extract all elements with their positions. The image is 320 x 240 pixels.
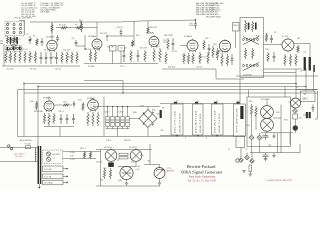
AC line top wire bbox=[0, 147, 38, 149]
left supply riser bbox=[100, 150, 102, 187]
coupling capacitor C13 bbox=[116, 27, 123, 36]
svg-text:C10: C10 bbox=[8, 57, 11, 59]
heater tie points bbox=[70, 152, 76, 161]
attenuator resistor Rd bbox=[252, 48, 254, 59]
svg-text:C20 10: C20 10 bbox=[196, 66, 202, 68]
svg-text:C12: C12 bbox=[97, 49, 100, 51]
riser left af bbox=[17, 90, 19, 137]
wire V7 plate link bbox=[294, 44, 310, 58]
attenuator core b bbox=[255, 23, 257, 30]
scattered value labels row1 bbox=[5, 21, 306, 73]
wire V8 top bbox=[48, 97, 50, 100]
svg-text:V7: V7 bbox=[274, 32, 277, 34]
winding note block bbox=[196, 2, 223, 16]
tube V4 AVC bbox=[149, 35, 159, 48]
parts list legend column 2 bbox=[40, 3, 64, 14]
svg-text:RH 4.7: RH 4.7 bbox=[80, 148, 86, 150]
resistor R26 bbox=[221, 53, 223, 66]
svg-text:CT: CT bbox=[53, 158, 56, 160]
bypass capacitor C51 bbox=[263, 153, 269, 161]
label meter red bbox=[167, 168, 175, 173]
grid resistor R15 bbox=[131, 40, 133, 47]
svg-text:R41 100K: R41 100K bbox=[34, 111, 44, 113]
svg-text:R44: R44 bbox=[78, 100, 81, 102]
row1 right parts bbox=[265, 49, 297, 66]
bus right step bbox=[264, 68, 303, 70]
meter circuit box bbox=[247, 97, 291, 147]
svg-text:R16: R16 bbox=[156, 46, 159, 48]
svg-text:C19 25: C19 25 bbox=[171, 51, 177, 53]
label cluster under V3 bbox=[84, 49, 99, 51]
wire switch to bus bbox=[23, 20, 25, 35]
bias winding bbox=[43, 180, 69, 185]
IF can T3 bbox=[193, 104, 204, 137]
wire rect to meter bbox=[144, 144, 160, 168]
resistor R14 bbox=[144, 50, 146, 62]
labels cap bank bbox=[104, 112, 125, 114]
svg-text:T2: T2 bbox=[176, 101, 178, 103]
svg-text:MOD AMP 6AQ5: MOD AMP 6AQ5 bbox=[206, 16, 222, 19]
resistor R57 bbox=[255, 106, 257, 130]
svg-text:R21 820: R21 820 bbox=[168, 66, 175, 68]
svg-text:C51: C51 bbox=[268, 145, 271, 147]
svg-text:455KC 2ND IF L 2.4mH: 455KC 2ND IF L 2.4mH bbox=[196, 110, 198, 133]
AC line bottom wire bbox=[0, 161, 38, 163]
wire V2 plate to bus bbox=[51, 22, 53, 39]
svg-text:C4b 940pF . .: C4b 940pF . . bbox=[40, 12, 53, 14]
svg-text:VT: VT bbox=[304, 94, 308, 96]
capacitor C42 bbox=[312, 105, 315, 113]
svg-text:R55 2K: R55 2K bbox=[124, 140, 131, 142]
output ground 1 bbox=[242, 171, 246, 173]
wire meter amp link bbox=[273, 117, 281, 119]
svg-text:C45: C45 bbox=[160, 130, 163, 132]
labels rectifier area bbox=[103, 162, 134, 182]
resistor R2 bbox=[36, 38, 38, 46]
component box K1 bbox=[110, 46, 117, 52]
svg-text:V13 6X4: V13 6X4 bbox=[129, 147, 138, 149]
riser x281 bbox=[278, 105, 282, 153]
crystal calibrator box bbox=[233, 23, 240, 32]
regulator ground bbox=[125, 180, 129, 185]
capacitor C25 bbox=[270, 35, 273, 43]
capacitor C19 bbox=[172, 38, 175, 50]
tube V5 modulator bbox=[187, 39, 198, 53]
wire output bus bbox=[250, 144, 300, 153]
filter resistor pair bbox=[119, 153, 128, 159]
coil L2 dark slugs bbox=[7, 47, 21, 51]
svg-text:606A Signal Generator: 606A Signal Generator bbox=[181, 169, 223, 174]
svg-text:R30: R30 bbox=[256, 36, 259, 38]
svg-text:L20: L20 bbox=[116, 159, 119, 161]
wire right edge stub bbox=[315, 91, 318, 119]
svg-text:C8: C8 bbox=[72, 38, 75, 40]
capacitor C31 bbox=[66, 114, 69, 124]
labels stage3 bbox=[163, 40, 206, 59]
svg-text:R15: R15 bbox=[136, 35, 139, 37]
fuse F1 bbox=[25, 143, 31, 149]
svg-text:R24: R24 bbox=[219, 50, 222, 52]
svg-text:C27: C27 bbox=[300, 70, 303, 72]
tube V9 AF amplifier bbox=[88, 98, 99, 112]
attenuator switch wafer 1 bbox=[243, 37, 259, 45]
bridge rectifier CR1 diamond bbox=[130, 107, 160, 137]
capacitor C17 under bus junction bbox=[189, 19, 197, 29]
svg-text:6AL7: 6AL7 bbox=[303, 97, 309, 100]
bus line B plus 2 bbox=[38, 86, 306, 88]
svg-text:R5 2.2K: R5 2.2K bbox=[59, 25, 67, 27]
svg-text:C13 50: C13 50 bbox=[116, 27, 123, 29]
attenuator switch wafer 2 bbox=[243, 63, 259, 71]
svg-text:6.3V +: 6.3V + bbox=[70, 152, 76, 154]
svg-text:C39 4: C39 4 bbox=[106, 140, 112, 142]
resistor R17 bbox=[159, 48, 161, 62]
capacitor C26 right edge bbox=[313, 65, 315, 72]
regulator series resistor bbox=[109, 168, 111, 179]
svg-text:▲ SELECTED BY FACTORY: ▲ SELECTED BY FACTORY bbox=[266, 179, 293, 182]
svg-text:R56: R56 bbox=[249, 101, 252, 103]
svg-text:.02: .02 bbox=[163, 42, 167, 44]
capacitor C14 bbox=[123, 50, 126, 62]
svg-text:R16 1M: R16 1M bbox=[150, 27, 157, 29]
bus row1 mid ground bbox=[84, 63, 158, 65]
resistor R25a bbox=[199, 52, 201, 64]
svg-text:R40: R40 bbox=[30, 101, 33, 103]
svg-text:1000: 1000 bbox=[189, 25, 194, 27]
svg-text:J1: J1 bbox=[228, 149, 230, 151]
svg-text:Hewlett-Packard: Hewlett-Packard bbox=[187, 164, 217, 169]
svg-text:R8 22K: R8 22K bbox=[85, 49, 92, 51]
IF can T5 with core bbox=[234, 104, 246, 136]
component box K2 bbox=[118, 46, 125, 52]
svg-text:T4: T4 bbox=[216, 101, 218, 103]
wire V9 riser bbox=[103, 97, 105, 137]
svg-text:+ 6.3: + 6.3 bbox=[70, 159, 74, 161]
riser x306 bbox=[305, 68, 307, 92]
svg-text:L10: L10 bbox=[303, 52, 306, 54]
svg-text:R23: R23 bbox=[213, 44, 216, 46]
tube V3 buffer bbox=[92, 38, 102, 51]
svg-text:T: T bbox=[238, 142, 240, 144]
svg-text:OSC B+ 120V REG: OSC B+ 120V REG bbox=[14, 18, 32, 20]
svg-text:455KC 3RD IF L 2.4mH: 455KC 3RD IF L 2.4mH bbox=[215, 110, 217, 133]
svg-text:C10 .005: C10 .005 bbox=[6, 69, 14, 71]
cathode resistor row stage 1 bbox=[5, 51, 37, 63]
power transformer T1 core bbox=[38, 146, 42, 184]
bus af right bbox=[93, 106, 160, 108]
monitor diode CR2 bbox=[239, 158, 244, 163]
svg-text:S1a: S1a bbox=[7, 23, 11, 25]
svg-text:C15 .1: C15 .1 bbox=[120, 66, 126, 68]
junction dots buses bbox=[23, 83, 306, 94]
meter ground bbox=[158, 179, 162, 186]
wire riser x148 with resistor bbox=[147, 21, 149, 34]
thermistor RT1 bbox=[160, 110, 162, 118]
svg-text:T3: T3 bbox=[197, 101, 199, 103]
riser x313 bbox=[313, 71, 315, 92]
svg-text:S2: S2 bbox=[244, 21, 246, 23]
labels bridge bbox=[133, 110, 157, 115]
svg-text:L1: L1 bbox=[19, 39, 21, 41]
can trimmer marks bbox=[174, 102, 240, 104]
grid line stage2 bbox=[106, 35, 134, 41]
tuning coil L1 with core bbox=[6, 36, 20, 44]
svg-text:R51: R51 bbox=[152, 110, 157, 112]
terminal left edge bbox=[0, 41, 3, 44]
svg-text:R2: R2 bbox=[33, 36, 35, 38]
bus row1 right ground bbox=[162, 68, 216, 70]
svg-text:H H: H H bbox=[70, 155, 74, 157]
svg-text:R33: R33 bbox=[265, 49, 268, 51]
attenuator core a bbox=[248, 23, 250, 30]
wire regulator top bbox=[118, 166, 136, 168]
wire af osc bottom bbox=[44, 127, 74, 137]
svg-text:OUTPUT XFMR 600 OHM: OUTPUT XFMR 600 OHM bbox=[237, 108, 239, 133]
labels under bus row1 bbox=[6, 66, 202, 71]
svg-text:Y1: Y1 bbox=[296, 87, 298, 89]
tube V6 mod output bbox=[219, 39, 230, 53]
labels under stage1 bbox=[5, 49, 70, 59]
attenuator resistor Rc bbox=[245, 48, 247, 59]
riser heater left bbox=[37, 87, 39, 147]
svg-text:R20 220K: R20 220K bbox=[164, 35, 174, 37]
resistor R20 bbox=[167, 38, 169, 50]
extra micro labels bbox=[100, 27, 298, 151]
wire V3 plate to bus bbox=[96, 22, 98, 38]
range switch dots bbox=[107, 106, 128, 107]
svg-text:V12 6X4: V12 6X4 bbox=[104, 147, 113, 149]
svg-text:T5: T5 bbox=[237, 101, 239, 103]
bus line B plus 1 bbox=[24, 83, 296, 85]
svg-text:R7: R7 bbox=[75, 25, 77, 27]
svg-text:C4: C4 bbox=[26, 34, 28, 36]
resistor R13 bbox=[130, 50, 132, 62]
svg-text:W6 = 300t #38 SILK 42u: W6 = 300t #38 SILK 42u bbox=[196, 13, 218, 16]
resistor R44 between stages bbox=[82, 102, 84, 111]
svg-text:R58: R58 bbox=[276, 112, 279, 114]
resistor R25b bbox=[207, 52, 209, 64]
svg-text:+150: +150 bbox=[136, 166, 142, 168]
resistor R47 bbox=[97, 112, 99, 126]
svg-text:C34 .5: C34 .5 bbox=[104, 112, 111, 114]
grid bus step bbox=[84, 80, 123, 82]
svg-text:C11 500: C11 500 bbox=[63, 50, 70, 52]
bus line right upper bbox=[236, 75, 318, 77]
capacitor C21 bbox=[208, 44, 211, 54]
heater dropping resistor Rh1 bbox=[83, 151, 85, 159]
svg-text:C9 .01: C9 .01 bbox=[22, 49, 28, 51]
wire K1 lead bbox=[112, 51, 114, 64]
svg-text:R31: R31 bbox=[297, 38, 300, 40]
trimmer box bbox=[293, 114, 302, 119]
resistor R56 bbox=[250, 104, 252, 135]
tube V7 output amp bbox=[282, 38, 294, 53]
potentiometer R24 bbox=[216, 48, 219, 60]
heater winding 6.3V bbox=[43, 166, 69, 172]
heater winding 5V bbox=[43, 174, 69, 179]
svg-text:V4 6BA6: V4 6BA6 bbox=[146, 32, 155, 35]
svg-text:V3 6AH6: V3 6AH6 bbox=[88, 35, 97, 38]
svg-text:METER: METER bbox=[167, 171, 175, 173]
svg-text:55 V BIAS: 55 V BIAS bbox=[44, 182, 53, 185]
svg-text:C30 .1: C30 .1 bbox=[58, 111, 65, 113]
bus row1 left ground bbox=[2, 44, 80, 66]
svg-text:C41: C41 bbox=[299, 117, 302, 119]
crystal Y1 bbox=[293, 108, 298, 113]
svg-text:50 / 60 c: 50 / 60 c bbox=[15, 156, 23, 158]
resistor R30 bbox=[265, 33, 267, 42]
diode CR5 in box bbox=[249, 135, 254, 153]
meter M1 bbox=[154, 168, 165, 179]
resistor R23 bbox=[212, 46, 214, 58]
ground C50 bbox=[272, 133, 276, 139]
tube V8 AF oscillator bbox=[44, 100, 54, 113]
resistor R40 bbox=[35, 101, 37, 110]
svg-text:V5 6AQ5: V5 6AQ5 bbox=[184, 35, 193, 38]
crystal holder dark bbox=[293, 119, 298, 133]
variable capacitor C4 bbox=[28, 36, 31, 44]
svg-text:R14 47K: R14 47K bbox=[140, 48, 148, 50]
svg-text:RT: RT bbox=[162, 108, 165, 110]
resistor R42 bbox=[48, 113, 50, 126]
svg-text:6.3 V 3A: 6.3 V 3A bbox=[44, 168, 52, 171]
svg-text:Q80 ADJ TOP SLUG: Q80 ADJ TOP SLUG bbox=[199, 113, 202, 133]
capacitor bank C34-C38 bbox=[106, 107, 130, 137]
heater dropping resistor Rh2 bbox=[89, 151, 91, 159]
IF can T2 bbox=[171, 104, 183, 137]
supply bottom bus bbox=[96, 185, 160, 187]
tube V14 regulator OA2 bbox=[120, 166, 133, 179]
svg-text:MA: MA bbox=[148, 160, 152, 163]
resistor R9 under V3 bbox=[94, 50, 96, 62]
svg-text:R62: R62 bbox=[131, 162, 134, 164]
resistor R8 under V3 bbox=[89, 50, 91, 62]
svg-text:455KC 1ST IF L 2.4mH: 455KC 1ST IF L 2.4mH bbox=[175, 111, 177, 133]
AVC rail with series resistors bbox=[56, 21, 97, 29]
resistor R45 bbox=[87, 112, 89, 126]
plate resistor R10 bbox=[79, 20, 83, 32]
svg-text:R25 1K: R25 1K bbox=[199, 57, 206, 59]
rectifier select box bbox=[43, 150, 63, 164]
svg-text:C61: C61 bbox=[103, 168, 106, 170]
riser right edge bbox=[296, 89, 318, 91]
svg-text:5a: 5a bbox=[246, 149, 249, 151]
wire grid V7 bbox=[264, 44, 283, 46]
tube V10a meter diode bbox=[261, 101, 274, 119]
capacitor C6 bbox=[56, 35, 59, 42]
svg-text:V10 6AL5: V10 6AL5 bbox=[261, 98, 271, 101]
bus line heater 2 bbox=[24, 92, 318, 94]
wire V5 grid bbox=[180, 45, 187, 47]
svg-text:C11 2x: C11 2x bbox=[55, 69, 61, 71]
svg-text:C44: C44 bbox=[246, 125, 249, 127]
output jack box bbox=[236, 136, 249, 151]
attenuator resistor Rb bbox=[252, 21, 254, 32]
wire V6 cathode bbox=[224, 52, 226, 53]
choke L11 bbox=[309, 57, 311, 71]
riser x296 bbox=[295, 69, 297, 98]
label +150 regulated bbox=[136, 166, 142, 171]
riser x123 bbox=[122, 81, 124, 94]
wire top bus corner drop bbox=[133, 22, 135, 47]
riser x240 bbox=[239, 79, 241, 104]
svg-text:V7 6J6: V7 6J6 bbox=[282, 36, 288, 38]
svg-text:Funk Audio Engineering: Funk Audio Engineering bbox=[189, 176, 216, 179]
svg-text:HV 650V: HV 650V bbox=[53, 154, 61, 156]
grid resistor R3 bbox=[51, 23, 53, 33]
svg-text:AF 400/1000: AF 400/1000 bbox=[20, 139, 32, 142]
svg-text:R9: R9 bbox=[68, 57, 70, 59]
IF can T4 bbox=[212, 104, 224, 137]
bus step right bbox=[216, 69, 244, 79]
bleeder resistor bbox=[103, 168, 105, 179]
svg-text:2: 2 bbox=[206, 138, 207, 140]
capacitor C30 bbox=[60, 114, 63, 124]
resistor R41 bbox=[43, 113, 45, 124]
scattered value labels row2 bbox=[30, 100, 279, 127]
resistor R21a bbox=[165, 52, 167, 64]
capacitor C40 dark pair bbox=[303, 112, 311, 118]
rectifier top bus bbox=[96, 149, 152, 151]
wire grid V3 bbox=[76, 35, 85, 50]
T1 ground lead bbox=[39, 184, 41, 188]
diode CR6 in box bbox=[257, 133, 262, 153]
monitor diode CR4 bbox=[250, 159, 255, 164]
riser into box bbox=[248, 90, 250, 98]
resistor R27 bbox=[226, 54, 228, 66]
tube V11 calibrator bbox=[289, 98, 301, 108]
svg-text:R50: R50 bbox=[133, 112, 138, 114]
wire meter net bbox=[261, 133, 293, 144]
svg-text:Q80 ADJ TOP SLUG: Q80 ADJ TOP SLUG bbox=[218, 113, 221, 133]
label line voltage bbox=[14, 153, 25, 158]
filter choke dark bbox=[108, 163, 114, 167]
monitor diode CR3 bbox=[245, 155, 250, 160]
screen bypass row stage 1b bbox=[40, 52, 79, 65]
scattered value labels row3 bbox=[80, 148, 143, 182]
svg-text:R9 68K: R9 68K bbox=[88, 66, 95, 68]
attenuator resistor Ra bbox=[245, 21, 247, 32]
svg-text:C60 40: C60 40 bbox=[96, 162, 102, 164]
svg-text:Vol. 32, No. 11, Nov 1958: Vol. 32, No. 11, Nov 1958 bbox=[187, 179, 216, 182]
jack contact bbox=[236, 159, 239, 162]
tube V1 oscillator bbox=[10, 37, 18, 47]
attenuator box outline bbox=[240, 18, 264, 78]
load resistor RL bbox=[249, 165, 252, 172]
svg-text:Q80 ADJ TOP SLUG: Q80 ADJ TOP SLUG bbox=[179, 113, 182, 133]
bus row2 bottom bbox=[18, 136, 246, 138]
bypass capacitor C50 bbox=[263, 133, 269, 141]
svg-text:C33: C33 bbox=[63, 102, 66, 104]
coupling capacitor C8 bbox=[75, 40, 78, 46]
tube V13 rectifier bbox=[130, 148, 142, 162]
svg-text:R22: R22 bbox=[205, 38, 208, 40]
choke L10 bbox=[304, 57, 306, 71]
calibrator label box bbox=[301, 91, 316, 102]
coupling network R44 C33 bbox=[54, 101, 75, 107]
wire calibrator drop bbox=[235, 31, 237, 48]
svg-text:C14 .05: C14 .05 bbox=[120, 48, 127, 50]
svg-text:R5: R5 bbox=[31, 56, 33, 58]
labels af osc bbox=[34, 111, 65, 113]
resistor R31 bbox=[297, 45, 299, 53]
tube V2 RF amp bbox=[47, 39, 57, 52]
svg-text:OA2: OA2 bbox=[118, 179, 122, 182]
tube V12 rectifier bbox=[105, 148, 117, 162]
wire V13 cathode down bbox=[135, 161, 137, 166]
svg-text:R10 47K: R10 47K bbox=[100, 33, 108, 35]
svg-text:1 TV: 1 TV bbox=[167, 168, 172, 170]
